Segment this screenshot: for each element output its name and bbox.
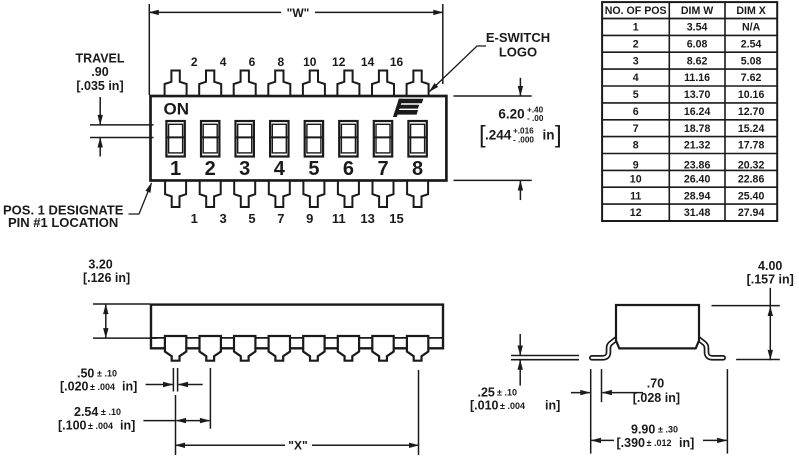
dimension .50: extension lines at pin foot	[172, 368, 174, 392]
svg-text:[.100: [.100	[58, 419, 87, 433]
dimension 4.00: lower extension line	[736, 359, 780, 361]
svg-text:7: 7	[633, 123, 639, 135]
svg-text:+.40: +.40	[527, 106, 544, 115]
svg-text:12.70: 12.70	[738, 106, 765, 118]
table row 1	[633, 22, 761, 34]
svg-text:DIM X: DIM X	[736, 5, 765, 17]
travel dimension: up arrow	[99, 138, 101, 157]
table row 10	[630, 173, 765, 185]
top pin (even pin 4)	[199, 71, 221, 97]
svg-text:[.126 in]: [.126 in]	[83, 271, 130, 285]
dimension 4.00: down arrowhead	[768, 350, 773, 360]
svg-text:7: 7	[277, 211, 284, 226]
table row 3	[633, 55, 762, 67]
svg-text:.90: .90	[91, 65, 108, 79]
svg-text:4: 4	[220, 55, 227, 69]
switch actuator S3	[236, 121, 254, 157]
svg-text:13.70: 13.70	[684, 89, 711, 101]
svg-text:7: 7	[377, 158, 388, 180]
top pin (even pin 6)	[234, 71, 256, 97]
svg-text:DIM W: DIM W	[681, 5, 713, 17]
svg-text:in]: in]	[120, 419, 135, 433]
svg-text:[.010: [.010	[470, 399, 499, 413]
dimension 6.20: lower extension line	[454, 179, 532, 181]
svg-text:5: 5	[308, 158, 319, 180]
table row 6	[633, 106, 765, 118]
svg-text:± .004: ± .004	[500, 401, 525, 411]
top pin (even pin 2)	[165, 71, 187, 97]
switch actuator S6	[339, 121, 357, 157]
top pin (even pin 8)	[268, 71, 290, 97]
dimension [.020 +/- .004 in] label	[60, 380, 137, 394]
dimension 9.90: right extension line	[726, 369, 728, 454]
svg-text:15: 15	[389, 211, 403, 226]
svg-text:5.08: 5.08	[741, 55, 762, 67]
svg-text:[.390: [.390	[617, 436, 646, 450]
dimension 2.54 +/- .10 label	[74, 405, 121, 419]
switch actuator S1	[166, 121, 184, 157]
svg-text:- .00: - .00	[527, 114, 544, 123]
svg-text:[.020: [.020	[60, 380, 89, 394]
dimension [.390 +/- .012 in] label	[617, 436, 695, 450]
dimension [.100 +/- .004 in] label	[58, 419, 135, 433]
table row separator lines	[602, 19, 777, 205]
svg-text:[.157 in]: [.157 in]	[747, 273, 794, 287]
table row 11	[630, 190, 764, 202]
dimension .25: up arrow	[519, 360, 521, 385]
svg-text:± .10: ± .10	[101, 407, 121, 417]
svg-text:"X": "X"	[288, 439, 307, 453]
top pin (even pin 12)	[337, 71, 359, 97]
svg-text:NO. OF POS: NO. OF POS	[605, 5, 667, 17]
dimension 3.20: upper extension line	[93, 303, 150, 305]
svg-text:6.20: 6.20	[498, 107, 524, 122]
top pin (even pin 14)	[372, 71, 394, 97]
dimension .50: right-pointing arrow	[146, 384, 173, 386]
front view: switch body	[151, 305, 443, 349]
svg-text:10: 10	[630, 173, 642, 185]
table row 2	[633, 38, 762, 50]
travel dimension: upper reference line	[90, 124, 154, 126]
svg-text:3: 3	[219, 211, 226, 226]
dimension [.010 +/- .004 in] label	[470, 399, 560, 413]
svg-text:9.90: 9.90	[631, 423, 655, 437]
bottom pin (odd pin 7)	[269, 181, 290, 208]
dimension .70: extension line (foot outer edge)	[590, 369, 592, 454]
svg-text:E-SWITCH: E-SWITCH	[486, 30, 550, 45]
svg-text:1: 1	[170, 158, 181, 180]
svg-text:.244: .244	[485, 128, 512, 143]
svg-text:LOGO: LOGO	[499, 44, 537, 59]
front view pin 1	[165, 336, 186, 361]
svg-text:21.32: 21.32	[684, 140, 711, 152]
svg-text:16.24: 16.24	[684, 106, 711, 118]
bottom pin (odd pin 3)	[200, 181, 221, 208]
svg-text:3: 3	[633, 55, 639, 67]
front view pin 3	[234, 336, 255, 361]
svg-text:8: 8	[412, 158, 423, 180]
seating plane reference lines	[511, 355, 579, 357]
bottom pin (odd pin 15)	[407, 181, 428, 208]
svg-text:± .012: ± .012	[647, 438, 672, 448]
dimension .25: down arrow	[519, 334, 521, 355]
svg-text:6: 6	[249, 55, 256, 69]
top pin (even pin 10)	[303, 71, 325, 97]
dimension 4.00: upper extension line	[712, 305, 780, 307]
dimension 6.20: down arrow	[519, 78, 521, 96]
svg-text:5: 5	[248, 211, 255, 226]
svg-text:11.16: 11.16	[684, 72, 710, 84]
svg-text:18.78: 18.78	[684, 123, 711, 135]
svg-text:2: 2	[205, 158, 216, 180]
svg-text:1: 1	[633, 22, 639, 34]
dimension W: dimension line with arrows	[149, 11, 281, 13]
svg-text:4.00: 4.00	[758, 259, 782, 273]
svg-text:3.54: 3.54	[687, 22, 708, 34]
svg-text:2.54: 2.54	[741, 38, 762, 50]
svg-text:31.48: 31.48	[684, 207, 711, 219]
switch actuator S8	[408, 121, 426, 157]
svg-text:9: 9	[306, 211, 313, 226]
table header row	[605, 5, 766, 17]
svg-text:16: 16	[390, 55, 404, 69]
svg-text:3.20: 3.20	[88, 257, 112, 271]
dimension .50: left-pointing arrow	[179, 384, 203, 386]
switch actuator S2	[201, 121, 219, 157]
side view: right gull-wing lead	[697, 338, 723, 358]
dimension 4.00: vertical dimension line	[769, 288, 771, 360]
dimension 4.00: up arrowhead	[768, 306, 773, 316]
bottom pin (odd pin 13)	[373, 181, 394, 208]
svg-text:N/A: N/A	[742, 22, 761, 34]
svg-text:± .004: ± .004	[90, 382, 115, 392]
front view pin 5	[303, 336, 324, 361]
svg-text:17.78: 17.78	[738, 140, 765, 152]
svg-text:6: 6	[633, 106, 639, 118]
front view: terminal band line	[151, 337, 443, 339]
svg-text:15.24: 15.24	[738, 123, 765, 135]
dimension 2.54: double arrow	[177, 420, 210, 422]
svg-text:ON: ON	[164, 100, 190, 119]
dimension 9.90: dimension line with arrows	[592, 439, 615, 441]
dimension W: extension line left	[148, 4, 150, 95]
travel dimension: down arrow	[99, 97, 101, 124]
svg-text:1: 1	[191, 211, 198, 226]
svg-text:4: 4	[633, 72, 639, 84]
svg-text:TRAVEL: TRAVEL	[75, 52, 124, 66]
svg-text:25.40: 25.40	[738, 190, 765, 202]
dimension 2.54: pin 1 centerline extension	[175, 395, 177, 455]
svg-text:PIN #1 LOCATION: PIN #1 LOCATION	[8, 215, 118, 230]
bottom pin (odd pin 5)	[234, 181, 255, 208]
table row 5	[633, 89, 765, 101]
dimension .70: right-pointing arrow	[571, 392, 590, 394]
svg-text:11: 11	[630, 190, 641, 202]
bottom pin (odd pin 1)	[165, 181, 186, 208]
svg-text:± .004: ± .004	[88, 421, 113, 431]
dimension .70: left-pointing arrow	[602, 392, 643, 394]
front view pin 8	[407, 336, 428, 361]
dimension 3.20: vertical dimension line	[105, 305, 107, 338]
svg-text:8: 8	[633, 140, 639, 152]
dimension 2.54: leader line	[143, 420, 175, 422]
front view pin 4	[269, 336, 290, 361]
dimension 9.90 +/- .30 label	[631, 423, 678, 437]
dimension 6.20: up arrow	[519, 181, 521, 200]
E-Switch logo mark on body	[393, 99, 423, 117]
svg-text:6: 6	[343, 158, 354, 180]
dimension 6.20: upper extension line	[454, 95, 532, 97]
svg-text:5: 5	[633, 89, 639, 101]
svg-text:in]: in]	[122, 380, 137, 394]
dimension 2.54: pin 2 centerline extension	[209, 368, 211, 429]
dimension X: dimension line with arrows	[176, 444, 286, 446]
svg-text:28.94: 28.94	[684, 190, 711, 202]
svg-text:.70: .70	[647, 376, 664, 390]
dimension X: extension line right (pin 8 centerline)	[418, 370, 420, 455]
svg-text:in]: in]	[545, 399, 560, 413]
svg-text:26.40: 26.40	[684, 173, 711, 185]
table row 8	[633, 140, 765, 152]
front view pin 2	[200, 336, 221, 361]
svg-text:± .10: ± .10	[97, 369, 117, 379]
top pin (even pin 16)	[407, 71, 429, 97]
svg-text:14: 14	[361, 55, 375, 69]
svg-text:in]: in]	[679, 436, 694, 450]
svg-text:.50: .50	[77, 367, 94, 381]
svg-text:in: in	[543, 128, 555, 143]
svg-text:12: 12	[630, 207, 642, 219]
dimension .50 +/- .10 label	[77, 367, 117, 381]
svg-text:.25: .25	[478, 385, 495, 399]
svg-text:- .000: - .000	[513, 136, 534, 145]
svg-text:"W": "W"	[287, 6, 310, 20]
svg-text:3: 3	[239, 158, 250, 180]
dimension .25 +/- .10 label	[478, 385, 517, 399]
svg-text:[.035 in]: [.035 in]	[76, 79, 123, 93]
svg-text:22.86: 22.86	[738, 173, 765, 185]
table row 12	[630, 207, 765, 219]
svg-text:[.028 in]: [.028 in]	[633, 391, 680, 405]
svg-text:± .10: ± .10	[497, 387, 517, 397]
table row 4	[633, 72, 762, 84]
svg-text:2: 2	[633, 38, 639, 50]
svg-text:7.62: 7.62	[741, 72, 762, 84]
svg-text:± .30: ± .30	[658, 425, 678, 435]
svg-text:11: 11	[332, 211, 346, 226]
svg-text:27.94: 27.94	[738, 207, 765, 219]
svg-text:10: 10	[303, 55, 317, 69]
svg-text:10.16: 10.16	[738, 89, 765, 101]
svg-text:4: 4	[274, 158, 286, 180]
bottom pin (odd pin 9)	[303, 181, 324, 208]
svg-text:13: 13	[360, 211, 374, 226]
top view body outline (redrawn over pins)	[151, 96, 447, 181]
front view pin 7	[372, 336, 393, 361]
switch actuator S4	[270, 121, 288, 157]
dimensions table	[602, 2, 777, 221]
switch actuator S7	[374, 121, 392, 157]
svg-text:+.016: +.016	[513, 127, 534, 136]
side view: switch body	[616, 305, 699, 348]
svg-text:8: 8	[278, 55, 285, 69]
svg-text:8.62: 8.62	[687, 55, 708, 67]
switch actuator S5	[305, 121, 323, 157]
table row 9	[633, 160, 765, 172]
bottom pin (odd pin 11)	[338, 181, 359, 208]
svg-text:2.54: 2.54	[74, 405, 98, 419]
dimension 3.20: lower extension line	[93, 337, 157, 339]
svg-text:12: 12	[332, 55, 346, 69]
svg-text:]: ]	[555, 122, 562, 149]
svg-text:2: 2	[191, 55, 198, 69]
table row 7	[633, 123, 765, 135]
dimension .70: extension line (foot inner edge)	[601, 369, 603, 402]
dimension W: extension line right	[442, 4, 444, 84]
leader from callout to logo	[430, 46, 487, 92]
side view: left gull-wing lead	[592, 338, 618, 358]
top view: DIP switch body	[151, 96, 447, 181]
travel dimension: lower reference line	[90, 137, 154, 139]
front view pin 6	[338, 336, 359, 361]
leader from note to pin 1 corner	[129, 183, 152, 214]
svg-text:6.08: 6.08	[687, 38, 708, 50]
